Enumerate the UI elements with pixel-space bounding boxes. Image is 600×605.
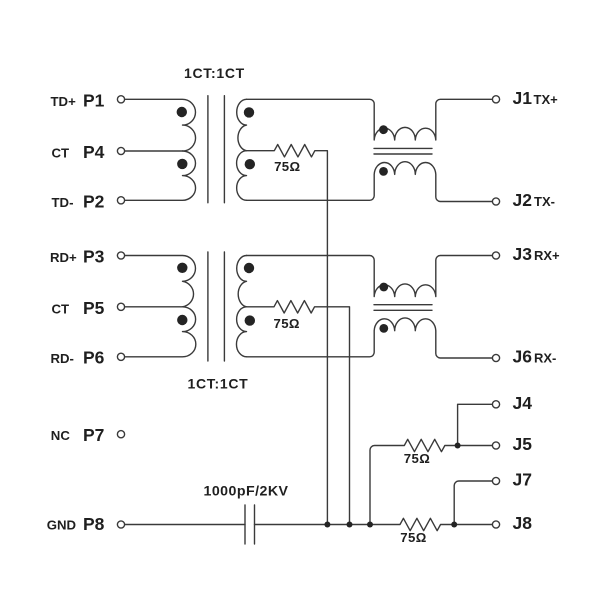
svg-text:1000pF/2KV: 1000pF/2KV xyxy=(204,483,289,499)
wire T2 secondary top to CMC2 and CMC2 RX top winding to J3 xyxy=(247,256,493,297)
svg-text:J3: J3 xyxy=(513,244,533,264)
transformer T2 primary winding with P3 and P6 wires xyxy=(125,256,196,357)
resistor R3 75ohm J5 row with vertical to ground bus xyxy=(370,439,492,524)
T2 primary dot top xyxy=(177,263,187,273)
svg-text:J1: J1 xyxy=(513,88,533,108)
junction TX resistor to ground bus xyxy=(324,522,330,528)
node P4 xyxy=(117,147,124,154)
transformer T1 primary winding with P1 and P2 wires xyxy=(125,99,196,200)
CMC2 dot top xyxy=(379,283,388,292)
wire J4 to junction on J5 row xyxy=(458,404,493,445)
svg-text:P4: P4 xyxy=(83,142,105,162)
wire P8 to capacitor xyxy=(125,524,245,526)
transformer T2 core xyxy=(208,252,225,361)
svg-text:TX+: TX+ xyxy=(534,92,559,107)
node P6 xyxy=(117,353,124,360)
wire P5 center tap xyxy=(125,306,183,308)
svg-text:75Ω: 75Ω xyxy=(274,159,300,174)
capacitor C1 1000pF/2KV plates xyxy=(245,505,255,544)
svg-text:75Ω: 75Ω xyxy=(404,451,430,466)
T2 secondary dot bottom xyxy=(245,315,255,325)
T1 primary dot top xyxy=(177,107,187,117)
wire T2 secondary bottom to CMC2 and CMC2 RX bottom winding to J6 xyxy=(247,318,493,358)
node J6 xyxy=(492,354,499,361)
junction J5 net to ground bus xyxy=(367,522,373,528)
ground bus wire with resistor R4 75ohm to J8 xyxy=(255,518,493,530)
T2 primary dot bottom xyxy=(177,315,187,325)
junction J7/J8 xyxy=(451,522,457,528)
node J1 xyxy=(492,96,499,103)
node J7 xyxy=(492,477,499,484)
T1 secondary dot bottom xyxy=(245,159,255,169)
node J5 xyxy=(492,442,499,449)
node J8 xyxy=(492,521,499,528)
wire J7 to junction on J8 row xyxy=(454,481,492,525)
svg-text:RD+: RD+ xyxy=(50,250,77,265)
svg-text:P1: P1 xyxy=(83,91,105,111)
resistor R2 75ohm with tap wire and vertical to ground bus xyxy=(247,301,350,525)
svg-text:RX+: RX+ xyxy=(534,248,560,263)
svg-text:P2: P2 xyxy=(83,192,105,212)
CMC1 dot top xyxy=(379,125,388,134)
svg-text:RX-: RX- xyxy=(534,351,556,366)
svg-text:TD-: TD- xyxy=(52,195,74,210)
node J3 xyxy=(492,252,499,259)
svg-text:J5: J5 xyxy=(513,434,533,454)
svg-text:P7: P7 xyxy=(83,425,104,445)
junction J4/J5 xyxy=(455,443,461,449)
svg-text:NC: NC xyxy=(51,428,71,443)
T1 primary dot bottom xyxy=(177,159,187,169)
node P3 xyxy=(117,252,124,259)
node J4 xyxy=(492,401,499,408)
node P7 xyxy=(117,431,124,438)
node P5 xyxy=(117,303,124,310)
transformer T1 core xyxy=(208,96,225,203)
svg-text:75Ω: 75Ω xyxy=(400,530,426,545)
svg-text:P8: P8 xyxy=(83,514,105,534)
svg-text:P6: P6 xyxy=(83,348,105,368)
wire P4 center tap xyxy=(125,150,183,152)
svg-text:P5: P5 xyxy=(83,298,105,318)
svg-text:75Ω: 75Ω xyxy=(273,316,299,331)
svg-text:P3: P3 xyxy=(83,247,105,267)
CMC1 core xyxy=(374,148,432,154)
node J2 xyxy=(492,198,499,205)
svg-text:1CT:1CT: 1CT:1CT xyxy=(188,375,249,391)
transformer T2 secondary winding xyxy=(236,256,246,357)
svg-text:1CT:1CT: 1CT:1CT xyxy=(184,65,245,81)
node P1 xyxy=(117,96,124,103)
svg-text:CT: CT xyxy=(52,302,70,317)
svg-text:RD-: RD- xyxy=(51,351,74,366)
T2 secondary dot top xyxy=(244,263,254,273)
svg-text:CT: CT xyxy=(52,146,70,161)
junction RX resistor to ground bus xyxy=(347,522,353,528)
resistor R1 75ohm with tap wire and vertical to ground bus xyxy=(247,145,328,525)
CMC2 dot bottom xyxy=(379,324,388,333)
svg-text:J4: J4 xyxy=(513,393,533,413)
svg-text:TX-: TX- xyxy=(534,194,555,209)
svg-text:J8: J8 xyxy=(513,513,533,533)
wire T1 secondary top to CMC1 and CMC1 TX top winding to J1 xyxy=(247,99,493,140)
svg-text:J2: J2 xyxy=(513,190,533,210)
node P8 xyxy=(117,521,124,528)
CMC2 core xyxy=(374,305,432,311)
wire T1 secondary bottom to CMC1 and CMC1 TX bottom winding to J2 xyxy=(247,162,493,202)
CMC1 dot bottom xyxy=(379,167,388,176)
T1 secondary dot top xyxy=(244,107,254,117)
svg-text:GND: GND xyxy=(47,517,76,532)
node P2 xyxy=(117,197,124,204)
svg-text:J7: J7 xyxy=(513,470,532,490)
svg-text:J6: J6 xyxy=(513,347,533,367)
transformer T1 secondary winding xyxy=(237,99,247,200)
svg-text:TD+: TD+ xyxy=(51,94,77,109)
